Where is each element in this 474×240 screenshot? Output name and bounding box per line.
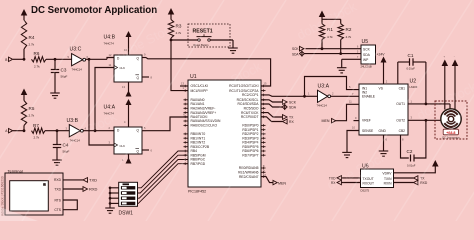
svg-text:U4:B: U4:B [104,35,116,41]
svg-text:DS275: DS275 [361,188,370,192]
svg-text:TX: TX [289,116,294,120]
svg-text:Terminal: Terminal [8,168,23,173]
svg-text:GND: GND [379,129,387,133]
svg-text:RX: RX [289,120,294,124]
svg-text:C1: C1 [408,53,414,58]
svg-text:74HC74: 74HC74 [104,42,115,46]
svg-text:74HC14: 74HC14 [317,104,328,108]
svg-text:U3:A: U3:A [318,84,330,90]
svg-text:OUT2: OUT2 [396,119,405,123]
svg-text:74HC14: 74HC14 [72,68,83,72]
svg-text:2.7k: 2.7k [29,114,35,118]
svg-text:0.01uF: 0.01uF [407,163,416,167]
svg-text:U3:C: U3:C [70,47,82,53]
svg-text:B: B [5,58,7,62]
svg-text:RXD: RXD [54,178,62,182]
svg-text:CLK: CLK [120,144,126,148]
svg-text:R6: R6 [34,51,40,56]
svg-text:U1: U1 [190,74,197,80]
svg-text:R4: R4 [29,35,35,40]
svg-text:CB1: CB1 [399,87,406,91]
svg-text:SDA: SDA [292,52,299,56]
svg-text:VREF: VREF [362,119,371,123]
svg-text:RXD: RXD [89,187,98,192]
svg-text:TXD: TXD [54,187,61,191]
svg-text:RC2/CCP1: RC2/CCP1 [242,93,259,97]
svg-text:SCK: SCK [292,47,299,51]
svg-text:DC Servomotor: DC Servomotor [442,136,459,139]
svg-text:TXIN: TXIN [384,177,392,181]
svg-text:TXD: TXD [89,177,97,182]
svg-text:C3: C3 [61,68,67,73]
svg-text:RB7/PGD: RB7/PGD [191,162,206,166]
svg-text:RXOUT: RXOUT [363,182,375,186]
svg-text:RTS: RTS [54,198,61,202]
svg-text:RXD: RXD [420,181,428,185]
svg-text:2.7k: 2.7k [34,136,40,140]
svg-text:RA6/OSC2/CLKO: RA6/OSC2/CLKO [191,124,218,128]
svg-text:CB2: CB2 [399,129,406,133]
svg-text:U5: U5 [362,39,369,45]
svg-text:MEN: MEN [322,119,330,123]
svg-text:WP: WP [363,58,369,62]
svg-text:SENSE: SENSE [362,129,374,133]
svg-text:R7: R7 [33,123,39,128]
svg-text:RE2/CS/AN7: RE2/CS/AN7 [239,175,259,179]
svg-text:MEN: MEN [278,181,286,185]
svg-text:C2: C2 [407,149,413,154]
svg-text:U2: U2 [410,79,417,85]
svg-text:DSW1: DSW1 [119,210,134,216]
svg-text:2.7k: 2.7k [29,43,35,47]
svg-text:R2: R2 [346,27,352,32]
svg-text:TXOUT: TXOUT [363,177,374,181]
svg-text:U3:B: U3:B [67,118,79,124]
svg-text:0.01uF: 0.01uF [407,67,416,71]
svg-text:56pF: 56pF [61,75,68,79]
svg-text:PIC18F452: PIC18F452 [188,190,206,194]
svg-text:SDA: SDA [363,53,371,57]
svg-text:+24V: +24V [377,53,386,57]
svg-text:OUT1: OUT1 [396,102,405,106]
svg-text:VDRV: VDRV [382,172,392,176]
svg-text:CTS: CTS [54,208,61,212]
svg-text:RC7/RX/DT: RC7/RX/DT [241,115,259,119]
svg-text:ENABLE: ENABLE [362,95,376,99]
svg-text:4.7k: 4.7k [327,35,333,39]
svg-text:RA5/AN4/SS/LVDIN: RA5/AN4/SS/LVDIN [191,119,221,123]
svg-text:4.7k: 4.7k [346,35,352,39]
svg-text:-: - [454,55,455,59]
svg-text:RXIN: RXIN [384,182,392,186]
svg-text:2.7k: 2.7k [34,65,40,69]
svg-text:SDA: SDA [289,106,297,110]
svg-text:SCK: SCK [363,48,371,52]
svg-text:SCK: SCK [289,101,297,105]
